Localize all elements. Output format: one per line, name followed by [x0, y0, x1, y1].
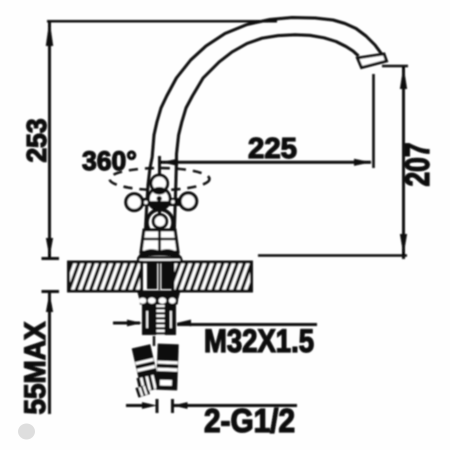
dim 207 top arrowhead	[400, 66, 407, 89]
countertop slab left	[69, 262, 142, 291]
svg-text:55MAX: 55MAX	[19, 321, 52, 414]
extension line outlet level	[382, 65, 408, 68]
thread crest bars	[157, 307, 165, 335]
hose connector left	[130, 344, 161, 393]
gray smudge bottom left	[18, 424, 35, 440]
dim 55MAX vertical line	[48, 293, 51, 414]
dim G12 left arrowhead	[142, 402, 157, 409]
extension line top	[47, 20, 277, 23]
dim 253 top arrowhead	[46, 20, 53, 46]
hose link line	[153, 336, 155, 346]
handle right connector dot	[170, 199, 175, 204]
dim M32 left arrowhead	[127, 320, 142, 327]
dim G12 right tick	[171, 399, 174, 413]
dim 253 bottom arrowhead	[46, 238, 53, 257]
dim 207 vertical line	[402, 66, 405, 259]
mounting nut scallop band	[139, 297, 179, 305]
dim G12 left arrow line	[126, 404, 143, 407]
svg-text:360°: 360°	[82, 146, 137, 176]
dim M32 left arrow line	[113, 322, 140, 325]
dimension 253 vertical line	[48, 22, 51, 257]
faucet bell flare dark band	[139, 250, 181, 258]
spout outlet cap	[358, 54, 387, 68]
dim 55MAX arrowhead up	[46, 293, 53, 312]
leader line M32X1.5	[177, 323, 317, 326]
svg-text:225: 225	[248, 133, 297, 165]
shank center line in hole	[158, 262, 160, 290]
dim 55MAX top tick	[42, 290, 60, 293]
dim 253 bottom tick	[42, 257, 60, 260]
center line of faucet	[158, 156, 161, 247]
nut scallop white dots	[139, 298, 176, 304]
svg-text:M32X1.5: M32X1.5	[204, 323, 314, 359]
svg-text:207: 207	[399, 143, 437, 187]
svg-text:253: 253	[21, 119, 52, 163]
dim G12 left tick	[156, 399, 159, 413]
faucet base plate	[138, 258, 183, 263]
countertop slab right	[173, 262, 252, 291]
handle top knob	[151, 175, 168, 192]
thread white center column	[157, 305, 165, 335]
extension line countertop right	[258, 254, 407, 257]
faucet body stem line	[158, 228, 161, 252]
faucet body trapezoid	[141, 230, 178, 252]
shank right bar in hole	[162, 262, 173, 289]
hose connector right	[156, 344, 179, 391]
dim M32 right arrowhead	[177, 320, 192, 327]
thread right white slit	[170, 311, 172, 328]
spout inner curve	[174, 35, 359, 240]
svg-text:2-G1/2: 2-G1/2	[204, 402, 295, 439]
handle base inner circle	[153, 215, 166, 228]
handle cross arm bar	[137, 198, 184, 206]
faucet body joint line	[143, 238, 176, 240]
dim 225 left arrowhead	[161, 159, 179, 166]
dim 225 horizontal line	[161, 161, 372, 164]
handle left knob	[126, 194, 143, 211]
leader line 2-G12	[173, 404, 297, 407]
rotation dashed ellipse	[110, 168, 210, 190]
shank left bar in hole	[147, 262, 157, 289]
handle right knob	[180, 193, 197, 210]
handle hub lower dark fill	[149, 201, 170, 210]
handle left connector dot	[143, 200, 148, 205]
handle base outer circle	[147, 210, 173, 236]
handle hub	[148, 188, 170, 210]
extension line below outlet vertical	[372, 74, 375, 168]
mounting nut body	[137, 291, 181, 299]
handle knob-hub junction dark blob	[153, 187, 167, 195]
threaded shank block	[142, 305, 176, 336]
dim G12 right arrowhead	[173, 402, 188, 409]
hose left tail	[135, 384, 150, 397]
spout outer curve	[145, 18, 382, 241]
handle hub center dot	[157, 196, 162, 201]
thread left white slit	[146, 311, 148, 328]
dim 207 bottom arrowhead	[400, 234, 407, 255]
dim 225 right arrowhead	[354, 159, 371, 166]
